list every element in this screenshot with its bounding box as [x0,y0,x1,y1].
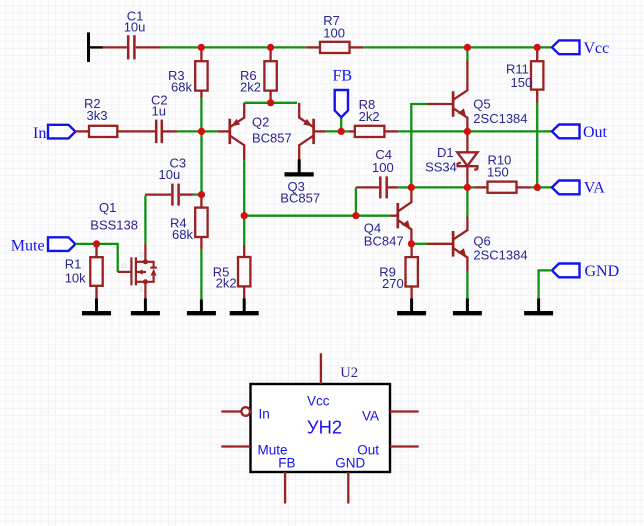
wire GND flag [539,270,552,298]
capacitor C1 [103,35,161,59]
svg-text:S: S [139,287,144,294]
pin U2 Mute left [221,445,250,447]
resistor R10 [475,182,531,193]
node junction R5 top [241,212,248,219]
transistor Q2 [218,103,244,160]
resistor R4 [195,195,207,250]
capacitor C4 [356,176,398,198]
flag Out [552,125,580,139]
wire Q6 collector up [466,187,468,216]
node junction R11 top [534,44,541,51]
svg-text:BSS138: BSS138 [90,218,138,233]
resistor R11 [531,47,543,102]
wire Q4 emitter row [411,243,427,245]
svg-text:In: In [33,125,46,142]
wire Q3 base to FB node [326,130,349,132]
svg-text:10u: 10u [159,167,181,182]
svg-text:Q5: Q5 [473,96,490,111]
wire C3 left corner [144,196,146,244]
svg-text:10u: 10u [124,19,146,34]
flag GND [552,264,580,278]
resistor R2 [75,126,156,137]
svg-text:10k: 10k [65,271,86,286]
svg-text:D: D [139,252,144,259]
wire Q2 emitter to Q3 emitter [244,102,297,104]
node junction R3 top [198,44,205,51]
svg-text:VA: VA [584,180,605,197]
svg-text:Mute: Mute [11,237,45,254]
ground GND flag [524,299,553,314]
wire C4 right to node [398,186,411,188]
resistor R9 [406,244,418,299]
node junction Q5 emitter [464,128,471,135]
svg-text:2k2: 2k2 [216,276,237,291]
wire Q5 collector to rail [466,47,468,60]
svg-text:270: 270 [382,276,404,291]
svg-text:150: 150 [511,75,533,90]
svg-text:U2: U2 [340,365,358,381]
resistor R5 [238,245,250,299]
pin U2 FB bottom [284,472,286,504]
svg-text:R1: R1 [65,256,82,271]
wire R11 down to VA [536,103,538,188]
svg-text:100: 100 [323,26,345,41]
supply bar top-left [89,32,103,62]
node junction In net [198,128,205,135]
ground Q6 [453,299,482,314]
wire node to D1 bottom [411,186,467,188]
svg-text:GND: GND [585,263,620,280]
svg-text:FB: FB [278,455,295,470]
wire Out row [398,130,552,132]
transistor Q6 [427,217,467,272]
capacitor C2 [156,120,177,144]
svg-text:Vcc: Vcc [584,40,610,57]
wire FB stub [340,117,342,131]
flag Vcc [552,40,580,54]
wire R5 top [243,216,245,245]
svg-text:BC847: BC847 [364,233,404,248]
node junction R6 top [267,44,274,51]
supply bar Q3 collector [285,159,314,174]
wire R3 to In node [200,98,202,132]
svg-text:BC857: BC857 [252,130,292,145]
svg-text:68k: 68k [171,80,192,95]
wire top rail left [161,46,307,48]
node junction D1 bottom [464,184,471,191]
pin U2 In left with bubble [221,410,241,412]
transistor Q3 [299,103,325,159]
wire Q2 collector down [243,160,245,216]
wire R4 bottom [200,249,202,299]
wire C4 left corner down [355,187,357,215]
svg-text:FB: FB [333,68,353,85]
wire VA row [467,186,474,188]
transistor Q4 [391,187,412,243]
wire Q6 emitter down [466,271,468,299]
svg-text:Q1: Q1 [99,200,116,215]
svg-text:2SC1384: 2SC1384 [473,248,527,263]
node junction C3 right [198,191,205,198]
wire In node down to C3 node [200,131,202,194]
svg-text:In: In [259,407,270,422]
svg-text:1u: 1u [152,103,166,118]
svg-text:3k3: 3k3 [87,108,108,123]
wire Q5 base net [411,104,427,187]
svg-text:2SC1384: 2SC1384 [473,111,527,126]
diode D1 [457,131,477,187]
svg-text:Q6: Q6 [473,233,490,248]
svg-text:VA: VA [362,408,379,423]
transistor Q5 [427,61,467,132]
node junction R11 bottom [534,184,541,191]
svg-text:SS34: SS34 [425,160,457,175]
IC box U2 [251,384,391,472]
wire C2 to In node [177,130,218,132]
resistor R1 [90,244,102,299]
wire C3 right to node [193,193,202,195]
wire Q2 collector row [244,215,390,217]
pin U2 VA right [390,410,419,412]
pin U2 Vcc top [320,353,322,384]
svg-text:Q2: Q2 [252,115,269,130]
node junction FB [338,128,345,135]
wire top rail right [363,46,552,48]
node junction Q5 collector top [464,44,471,51]
resistor R3 [195,47,207,97]
svg-text:УН2: УН2 [307,416,342,437]
pin U2 GND bottom [347,472,349,504]
svg-text:GND: GND [335,455,365,470]
resistor R7 [306,42,363,53]
capacitor C3 [145,184,193,206]
svg-text:G: G [122,263,127,270]
svg-text:100: 100 [372,160,394,175]
svg-text:2k2: 2k2 [240,80,261,95]
svg-text:2k2: 2k2 [359,109,380,124]
resistor R6 [264,47,276,102]
svg-text:BC857: BC857 [280,190,320,205]
svg-text:Out: Out [583,124,608,141]
svg-text:150: 150 [487,165,509,180]
pin U2 Out right [390,445,419,447]
ground R1 [82,299,111,314]
ground R4 [187,300,216,314]
svg-text:Vcc: Vcc [307,393,330,408]
node junction C4 right [408,184,415,191]
ground R5 [230,299,259,314]
node junction R9 top [408,240,415,247]
node junction R6 bottom [267,99,274,106]
ground R9 [397,299,426,314]
svg-text:D1: D1 [437,145,454,160]
node junction C4 left [352,212,359,219]
wire Mute row [75,244,117,272]
flag VA [552,181,580,195]
node junction R1 top [93,240,100,247]
resistor R8 [349,126,398,137]
svg-text:68k: 68k [172,227,193,242]
ground Q1 source [131,299,160,314]
